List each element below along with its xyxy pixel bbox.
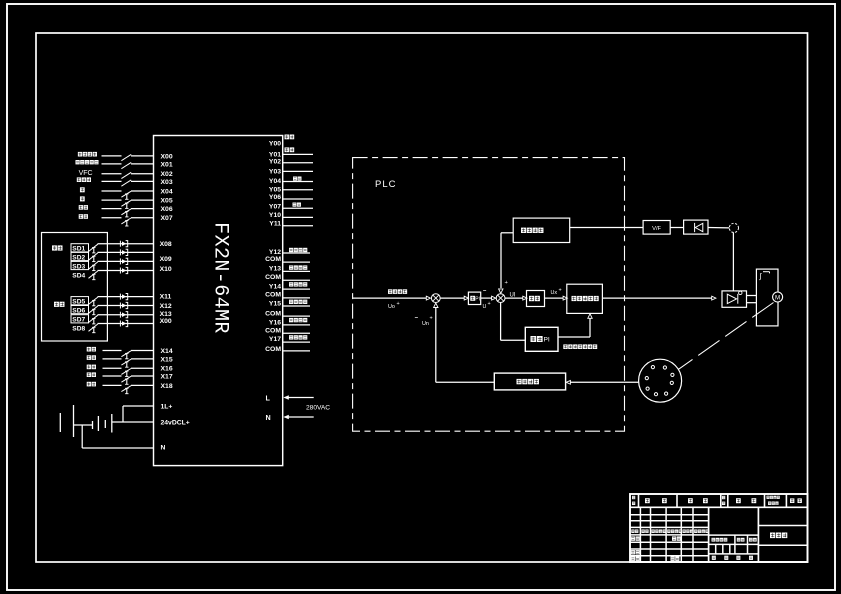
part name cell lines [758, 525, 807, 527]
svg-text:Y03: Y03 [269, 169, 281, 176]
svg-text:M: M [775, 295, 780, 302]
arrow up into trigger bottom [588, 314, 592, 319]
keypad key SD7 with contact [71, 315, 89, 323]
svg-text:Y16: Y16 [269, 319, 281, 326]
keypad group1 label [52, 245, 57, 250]
arrow into amplifier [712, 296, 716, 300]
wire observer to V/F [570, 227, 643, 229]
encoder disc [639, 359, 682, 402]
svg-text:COM: COM [265, 274, 281, 281]
wire L with arrow [287, 397, 314, 399]
battery cell bar b [73, 405, 75, 437]
input switch and wire X14 [87, 347, 91, 352]
svg-text:Y06: Y06 [269, 194, 281, 201]
wire setpoint input [353, 297, 426, 299]
wire N return [81, 425, 83, 448]
svg-text:X18: X18 [161, 383, 173, 390]
wire speed PI to sum2 [481, 297, 492, 299]
svg-text:COM: COM [265, 328, 281, 335]
svg-text:1L+: 1L+ [161, 404, 173, 411]
summing junction 1 [431, 294, 440, 303]
motor M circle [773, 292, 783, 302]
speed PI box text [470, 296, 475, 301]
wire trigger output to amplifier [602, 297, 711, 299]
input switch and wire X17 [87, 372, 91, 377]
svg-text:X05: X05 [161, 198, 173, 205]
keypad key SD2 with contact [71, 252, 89, 260]
input switch and wire X16 [87, 365, 91, 370]
svg-text:Y17: Y17 [269, 336, 281, 343]
PLC module FX2N-64MR box [154, 136, 283, 466]
svg-text:X12: X12 [160, 303, 172, 310]
motor armature block [756, 269, 778, 326]
svg-text:−: − [483, 289, 487, 295]
wire meter down to amplifier [732, 233, 734, 291]
svg-text:X04: X04 [161, 188, 173, 195]
svg-text:Y14: Y14 [269, 284, 281, 291]
wire limiter to trigger [545, 297, 564, 299]
output load label Y16 [289, 318, 293, 322]
signature labels [631, 536, 635, 540]
speed observer text [521, 228, 526, 233]
wires amplifier to motor block [747, 295, 757, 297]
svg-text:N: N [161, 445, 166, 452]
input switch and wire X15 [87, 355, 91, 360]
svg-text:+: + [430, 316, 433, 322]
svg-text:PI: PI [475, 297, 480, 303]
arrow into trigger [563, 296, 567, 300]
digital trigger box [567, 284, 603, 313]
svg-text:Uo: Uo [388, 304, 395, 310]
revision table grid [639, 507, 641, 562]
input switch and wire X01 [75, 160, 79, 164]
wire N with arrow [287, 416, 314, 418]
battery cell bar f [111, 414, 113, 433]
svg-text:PI: PI [544, 336, 550, 343]
armature winding mark [763, 271, 770, 273]
arrow into sum1 [426, 296, 430, 300]
svg-text:280VAC: 280VAC [306, 405, 330, 412]
svg-text:FX2N-64MR: FX2N-64MR [208, 222, 231, 334]
svg-text:24vDCL+: 24vDCL+ [161, 420, 190, 427]
svg-text:N: N [266, 413, 271, 422]
input switch and wire X07 [79, 214, 83, 219]
wire V/F to diode box [670, 227, 683, 229]
svg-text:X15: X15 [161, 356, 173, 363]
svg-text:Y02: Y02 [269, 159, 281, 166]
svg-text:SD1: SD1 [72, 246, 85, 253]
svg-text:Y15: Y15 [269, 300, 281, 307]
stage mark cells [709, 534, 759, 536]
wire 1L+ branch [122, 406, 124, 422]
input switch and wire X03 [77, 177, 81, 182]
label current adaptive tuning [563, 344, 567, 349]
stage mark texts [712, 538, 716, 542]
wire diode box to meter circle [708, 227, 729, 229]
svg-text:X00: X00 [160, 318, 172, 325]
diode indicator box [684, 220, 708, 234]
wire sum2 to limiter [505, 297, 523, 299]
svg-text:SD8: SD8 [72, 326, 85, 333]
input switch and wire X06 [79, 205, 83, 210]
output load label Y14 [289, 282, 293, 286]
battery cell bar a [59, 413, 61, 432]
svg-text:Y05: Y05 [269, 187, 281, 194]
thyristor amplifier box [722, 291, 747, 307]
svg-text:U: U [483, 304, 487, 310]
wire observer to sum2 (down) [501, 232, 513, 234]
output load label Y15 [289, 300, 293, 304]
svg-text:SD7: SD7 [72, 317, 85, 324]
svg-text:X10: X10 [160, 266, 172, 273]
svg-text:X17: X17 [161, 373, 173, 380]
svg-text:X01: X01 [161, 161, 173, 168]
speed feedback box [494, 373, 565, 390]
svg-text:−: − [415, 316, 419, 322]
svg-text:X02: X02 [161, 171, 173, 178]
revision table header texts [631, 529, 634, 533]
svg-text:X11: X11 [160, 294, 172, 301]
svg-text:+: + [559, 288, 562, 294]
svg-text:SD6: SD6 [72, 308, 85, 315]
arrow into speed PI [464, 296, 468, 300]
keypad key SD1 with contact [71, 244, 89, 252]
svg-text:SD2: SD2 [72, 254, 85, 261]
svg-text:X14: X14 [161, 348, 173, 355]
svg-text:X03: X03 [161, 179, 173, 186]
output load label Y13 [289, 265, 293, 269]
svg-text:Ux: Ux [551, 290, 558, 296]
svg-text:Y04: Y04 [269, 178, 281, 185]
svg-text:COM: COM [265, 256, 281, 263]
svg-text:X07: X07 [161, 215, 173, 222]
svg-text:X06: X06 [161, 206, 173, 213]
title block frame and header strip [630, 494, 808, 562]
input switch and wire X00 [78, 152, 82, 157]
digital trigger text [572, 296, 577, 301]
battery cell bar c [92, 421, 94, 429]
svg-text:COM: COM [265, 292, 281, 299]
part name text [770, 533, 775, 539]
diode symbol [694, 223, 696, 232]
limiter box [527, 291, 545, 307]
speed feedback text [517, 379, 522, 384]
svg-text:Y10: Y10 [269, 212, 281, 219]
meter circle [729, 223, 738, 232]
amplifier symbol [727, 294, 736, 303]
svg-text:+: + [397, 301, 400, 307]
shaft coupling dashed line [679, 303, 774, 370]
arrow down into sum2 [499, 289, 503, 294]
keypad key SD6 with contact [71, 306, 89, 314]
PLC software dashed box [353, 158, 625, 432]
svg-text:Y12: Y12 [269, 249, 281, 256]
wire sum1 to speed PI [440, 297, 464, 299]
input switch and wire X05 [80, 196, 85, 201]
arrow into feedback box [566, 380, 570, 384]
svg-text:+: + [488, 301, 491, 307]
arrow up into sum1 [434, 303, 438, 308]
output load label Y00 [285, 135, 290, 140]
current PI box [525, 327, 558, 351]
svg-text:X08: X08 [160, 241, 172, 248]
svg-text:PLC: PLC [375, 179, 396, 190]
keypad group2 label [54, 302, 59, 307]
svg-text:Y00: Y00 [269, 140, 281, 147]
svg-text:Y07: Y07 [269, 204, 281, 211]
V/F converter box [643, 221, 670, 235]
svg-text:Y11: Y11 [269, 221, 281, 228]
svg-text:L: L [266, 394, 271, 403]
svg-text:X09: X09 [160, 256, 172, 263]
summing junction 2 [496, 294, 505, 303]
output load label Y04 [293, 177, 297, 181]
output load label Y07 [293, 203, 297, 207]
svg-text:X00: X00 [161, 153, 173, 160]
input switch and wire X18 [87, 382, 91, 387]
limiter box text [529, 296, 534, 301]
svg-text:COM: COM [265, 346, 281, 353]
svg-text:Y13: Y13 [269, 266, 281, 273]
svg-text:Un: Un [422, 321, 429, 327]
output load label Y12 [289, 248, 293, 252]
title header strip labels [632, 496, 635, 499]
label given speed [388, 289, 392, 294]
svg-text:VFC: VFC [79, 170, 93, 177]
keypad key SD3 with contact [71, 261, 89, 269]
svg-text:X13: X13 [160, 311, 172, 318]
wire sum2 down to current PI [500, 303, 502, 341]
wire current PI to trigger [558, 336, 590, 338]
wire 24vDC supply to PLC [112, 421, 154, 423]
svg-text:X16: X16 [161, 366, 173, 373]
current PI text [531, 336, 537, 342]
keypad outer box [42, 233, 108, 342]
arrow into limiter [523, 296, 527, 300]
speed PI box [468, 292, 480, 304]
wire encoder to feedback box [570, 381, 638, 383]
svg-text:V/F: V/F [652, 226, 661, 232]
output load label Y01 [285, 147, 290, 152]
input switch and wire X04 [80, 187, 85, 192]
battery wire mid [74, 424, 93, 426]
svg-text:SD4: SD4 [72, 273, 85, 280]
arrow into sum2 [492, 296, 496, 300]
battery cell bar e [104, 420, 106, 428]
svg-text:Y01: Y01 [269, 151, 281, 158]
output load label Y17 [289, 335, 293, 339]
svg-text:SD5: SD5 [72, 299, 85, 306]
speed observer box [513, 218, 570, 242]
wire feedback to sum1 [436, 381, 495, 383]
battery cell bar d [97, 416, 99, 431]
svg-text:SD3: SD3 [72, 263, 85, 270]
svg-text:COM: COM [265, 311, 281, 318]
keypad key SD5 with contact [71, 297, 89, 305]
